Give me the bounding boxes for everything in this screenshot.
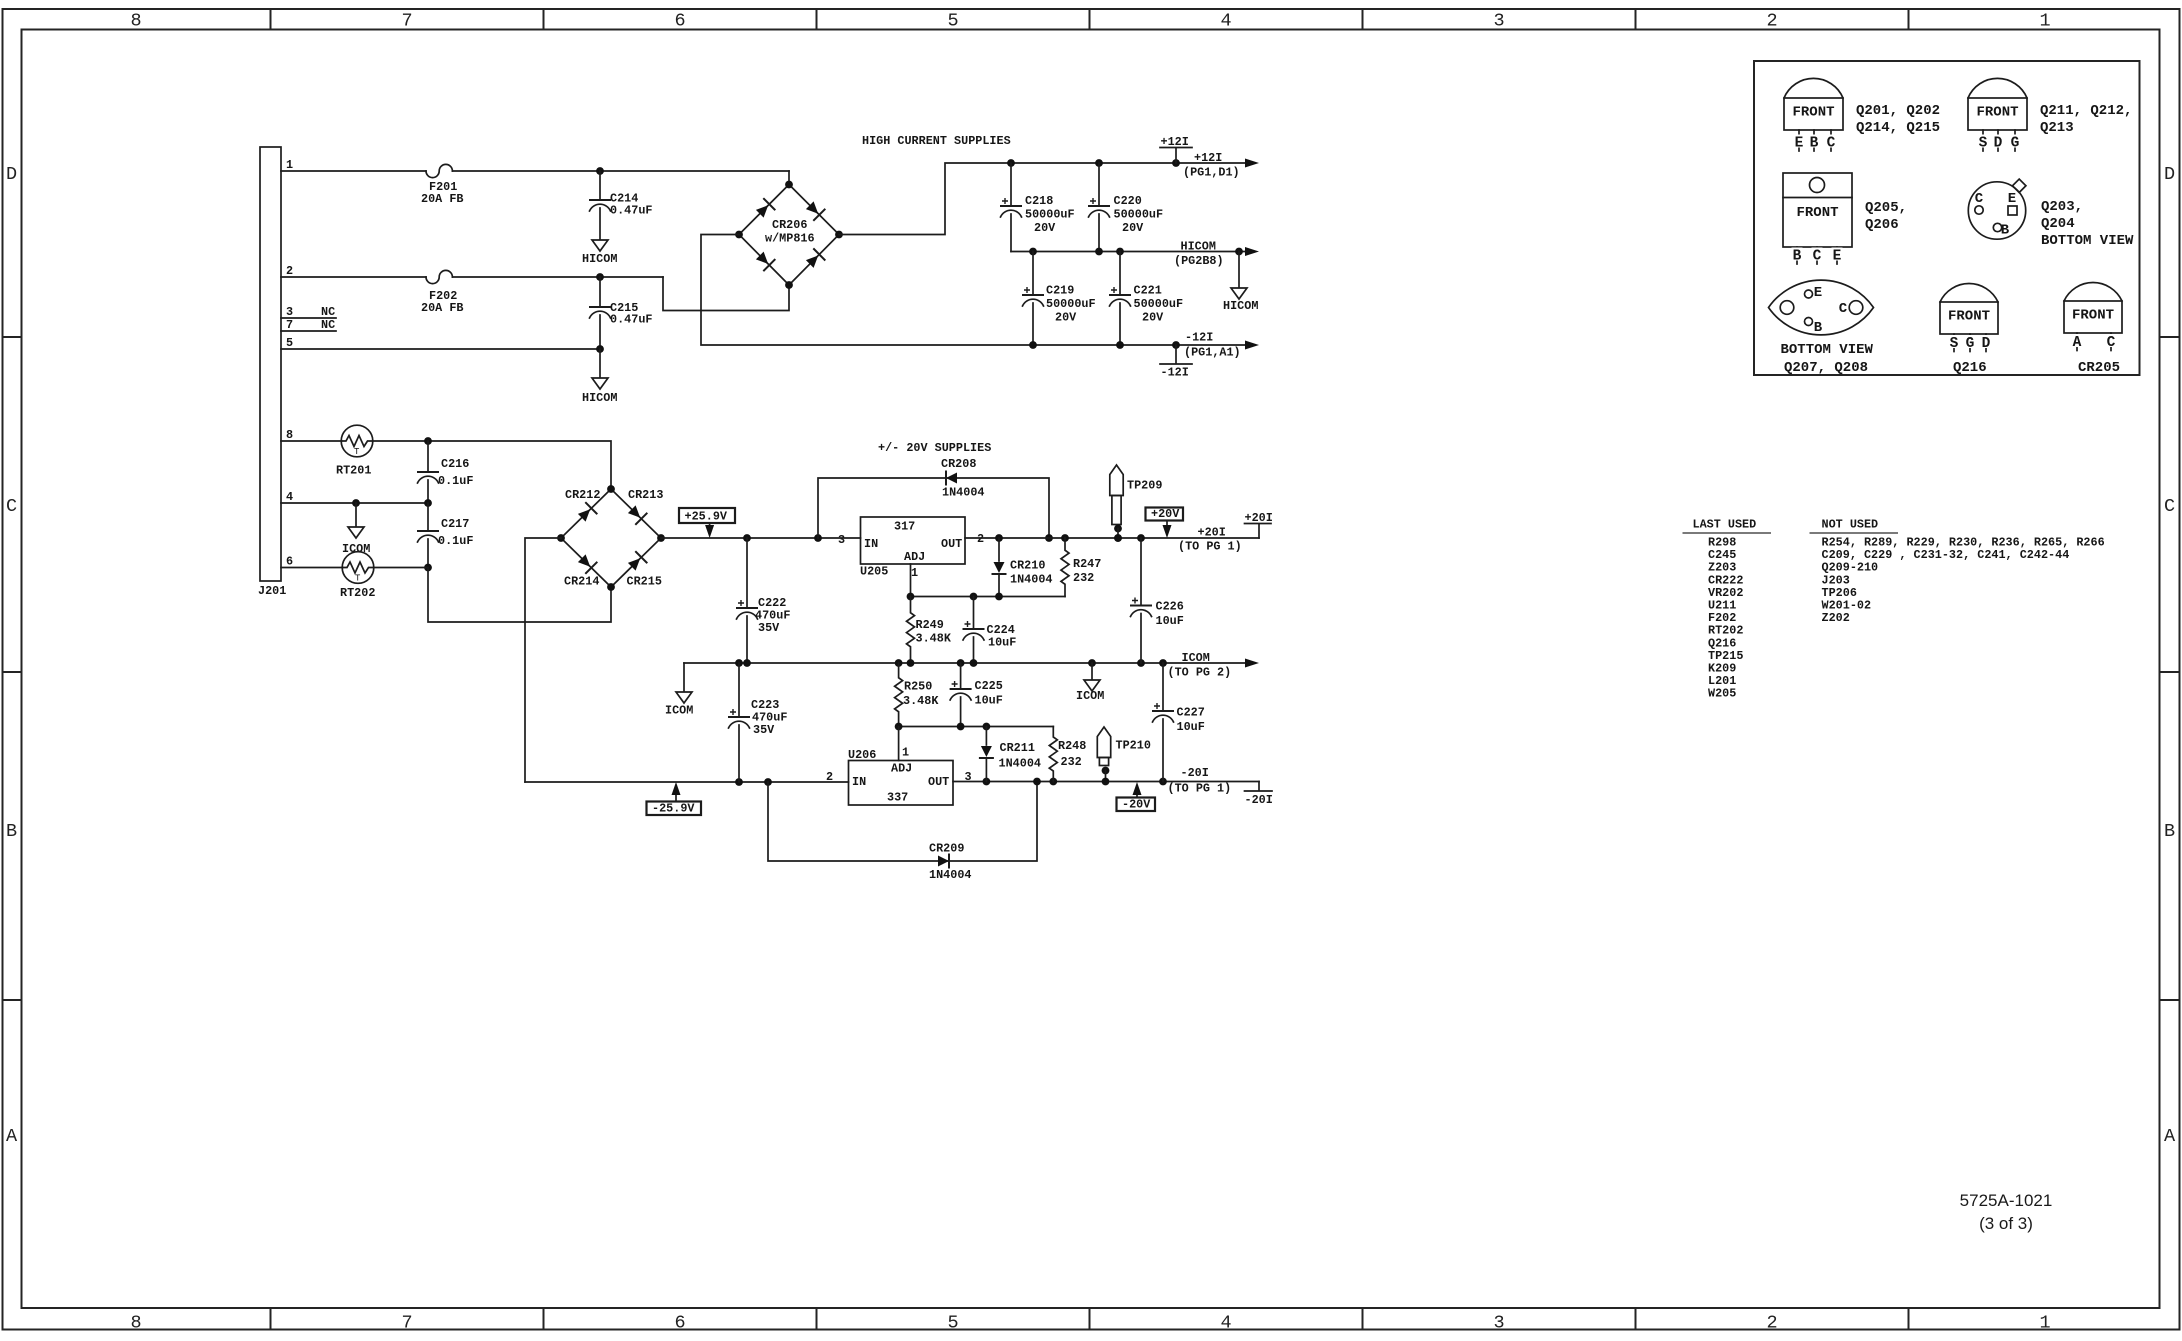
svg-text:ADJ: ADJ <box>904 550 925 564</box>
node ICOM right stub tap <box>1088 659 1096 667</box>
svg-text:CR205: CR205 <box>2078 360 2120 376</box>
svg-text:LAST USED: LAST USED <box>1693 518 1757 532</box>
test point TP209 <box>1110 465 1123 496</box>
svg-text:A: A <box>2164 1126 2176 1147</box>
svg-text:IN: IN <box>852 775 866 789</box>
node C217 top junction <box>424 499 432 507</box>
svg-text:CR210: CR210 <box>1010 559 1045 573</box>
svg-text:G: G <box>2011 136 2020 152</box>
node C224 top <box>970 593 978 601</box>
svg-text:(TO PG 1): (TO PG 1) <box>1168 782 1232 796</box>
wire RT202 to bridge bottom vertex <box>374 567 428 569</box>
wire CR208 bypass loop <box>818 478 1049 538</box>
capacitor C214 <box>599 171 601 199</box>
node C218 tap <box>1007 159 1015 167</box>
svg-text:0.1uF: 0.1uF <box>438 534 473 548</box>
svg-text:4: 4 <box>1220 11 1231 32</box>
svg-text:7: 7 <box>401 11 412 32</box>
svg-text:20V: 20V <box>1122 221 1144 235</box>
svg-text:A: A <box>2073 335 2082 351</box>
svg-text:C: C <box>1839 301 1848 317</box>
svg-text:S: S <box>1950 336 1959 352</box>
capacitor C224 <box>973 597 975 629</box>
svg-text:0.1uF: 0.1uF <box>438 474 473 488</box>
svg-text:ICOM: ICOM <box>665 704 693 718</box>
capacitor C223 <box>738 663 740 716</box>
svg-text:FRONT: FRONT <box>1976 105 2018 121</box>
arrow HICOM output <box>1245 247 1259 256</box>
svg-text:G: G <box>1966 336 1975 352</box>
svg-text:50000uF: 50000uF <box>1134 297 1184 311</box>
node C227 bottom <box>1159 778 1167 786</box>
node HICOM ground tap <box>1235 248 1243 256</box>
ground HICOM below C214 <box>592 240 608 251</box>
svg-text:-12I: -12I <box>1185 331 1213 345</box>
svg-text:NC: NC <box>321 318 335 332</box>
package Q211/Q212/Q213 front view <box>1968 98 2027 130</box>
svg-text:OUT: OUT <box>928 775 949 789</box>
svg-text:6: 6 <box>674 1313 685 1334</box>
node junction C214 tap <box>596 167 604 175</box>
svg-text:C220: C220 <box>1114 194 1142 208</box>
arrow +12I output <box>1245 159 1259 168</box>
bridge CR206 vertex nodes <box>785 181 793 189</box>
svg-text:NOT USED: NOT USED <box>1822 518 1879 532</box>
wire pin4 to C216/C217 junction <box>281 502 428 504</box>
node C221 top <box>1116 248 1124 256</box>
node RT202/C217 junction <box>424 564 432 572</box>
left border row letters D C B A <box>6 164 18 1147</box>
svg-text:B: B <box>1793 249 1802 265</box>
wire pin6 to RT202 <box>281 567 343 569</box>
svg-text:20A FB: 20A FB <box>421 192 463 206</box>
wire pin8 to RT201 <box>281 440 342 442</box>
svg-text:-20V: -20V <box>1122 798 1151 812</box>
svg-text:ICOM: ICOM <box>1076 689 1104 703</box>
svg-text:C: C <box>1827 136 1836 152</box>
node C220 bottom <box>1095 248 1103 256</box>
thermistor RT202 <box>342 552 374 584</box>
svg-text:D: D <box>2164 164 2175 185</box>
svg-text:R247: R247 <box>1073 557 1101 571</box>
diode CR215 arm bottom-right <box>628 558 640 570</box>
svg-text:3.48K: 3.48K <box>903 694 939 708</box>
voltage label +20V <box>1146 508 1184 521</box>
node -12I terminal tap <box>1172 341 1180 349</box>
svg-text:E: E <box>1833 249 1842 265</box>
svg-text:-20I: -20I <box>1181 766 1209 780</box>
svg-text:50000uF: 50000uF <box>1046 297 1096 311</box>
svg-text:Q206: Q206 <box>1865 217 1899 233</box>
svg-text:TP209: TP209 <box>1127 479 1162 493</box>
svg-text:Q216: Q216 <box>1953 360 1987 376</box>
svg-text:IN: IN <box>864 537 878 551</box>
fuse F202 <box>426 270 452 283</box>
svg-text:FRONT: FRONT <box>1948 309 1990 325</box>
node C227 top <box>1159 659 1167 667</box>
svg-text:FRONT: FRONT <box>1796 205 1838 221</box>
resistor R250 3.48K <box>895 663 903 727</box>
svg-text:D: D <box>1982 336 1991 352</box>
wire HICOM mid rail <box>1011 251 1246 253</box>
svg-text:CR208: CR208 <box>941 457 976 471</box>
diode CR211 1N4004 <box>985 727 987 746</box>
diode CR212 arm left-top <box>578 509 590 521</box>
svg-text:Z202: Z202 <box>1822 611 1850 625</box>
wire F201 to CR206 top vertex <box>452 170 789 172</box>
svg-text:3: 3 <box>1493 11 1504 32</box>
svg-text:232: 232 <box>1061 755 1082 769</box>
svg-text:4: 4 <box>1220 1313 1231 1334</box>
svg-text:C: C <box>1813 249 1822 265</box>
wire U206 OUT to -20 rail <box>953 781 1259 783</box>
node C219 bottom <box>1029 341 1037 349</box>
package Q207/Q208 TO-3 bottom view <box>1769 280 1874 335</box>
svg-text:ADJ: ADJ <box>891 762 912 776</box>
node CR210 bottom <box>995 593 1003 601</box>
svg-text:232: 232 <box>1073 571 1094 585</box>
wire bridge right vertex to U205 IN (+25.9V rail) <box>661 537 861 539</box>
svg-text:(TO PG 2): (TO PG 2) <box>1168 666 1232 680</box>
ground ICOM below pin4 <box>355 503 357 526</box>
wire U205 ADJ pin <box>910 564 912 597</box>
svg-text:Q207, Q208: Q207, Q208 <box>1784 360 1868 376</box>
svg-text:CR211: CR211 <box>1000 741 1035 755</box>
package Q201/Q202/Q214/Q215 TO-39 front view <box>1784 98 1843 130</box>
bridge rectifier CR206 diamond <box>739 185 839 286</box>
svg-text:2: 2 <box>977 532 984 546</box>
node junction C215 tap <box>596 273 604 281</box>
voltage label -25.9V <box>647 802 702 816</box>
svg-text:HIGH CURRENT SUPPLIES: HIGH CURRENT SUPPLIES <box>862 134 1011 148</box>
svg-text:HICOM: HICOM <box>1223 299 1258 313</box>
capacitor C221 <box>1119 252 1121 295</box>
node CR209 right <box>1033 778 1041 786</box>
node R250 bottom / U206 ADJ <box>895 723 903 731</box>
svg-text:R249: R249 <box>916 618 944 632</box>
thermistor RT201 <box>341 425 373 457</box>
node CR211 top <box>983 723 991 731</box>
svg-text:C: C <box>2107 335 2116 351</box>
svg-text:5: 5 <box>286 336 293 350</box>
terminal +20I riser <box>1258 524 1260 538</box>
svg-text:+20V: +20V <box>1151 507 1180 521</box>
ground HICOM output stub <box>1238 252 1240 288</box>
wire pin7 NC stub <box>281 330 336 332</box>
connector J201 pin number labels <box>286 158 293 569</box>
svg-text:OUT: OUT <box>941 537 962 551</box>
svg-text:A: A <box>6 1126 18 1147</box>
svg-text:1: 1 <box>286 158 293 172</box>
svg-text:CR209: CR209 <box>929 842 964 856</box>
diode CR213 arm top-right <box>628 505 640 517</box>
svg-text:D: D <box>6 164 17 185</box>
capacitor C226 <box>1140 538 1142 605</box>
node C220 tap <box>1095 159 1103 167</box>
svg-text:1N4004: 1N4004 <box>1010 573 1052 587</box>
svg-text:7: 7 <box>401 1313 412 1334</box>
node C225 bottom <box>957 723 965 731</box>
svg-text:C: C <box>2164 496 2175 517</box>
svg-text:337: 337 <box>887 791 908 805</box>
node C226 bottom <box>1137 659 1145 667</box>
svg-text:(PG1,A1): (PG1,A1) <box>1184 346 1241 360</box>
wire pin3 NC stub <box>281 317 336 319</box>
svg-text:B: B <box>2001 223 2010 239</box>
svg-text:10uF: 10uF <box>1177 720 1205 734</box>
node C225 top <box>957 659 965 667</box>
svg-text:CR213: CR213 <box>628 488 663 502</box>
node ICOM stub tap on pin4 <box>352 499 360 507</box>
terminal -20I drop <box>1258 782 1260 791</box>
svg-text:CR215: CR215 <box>627 575 662 589</box>
fuse F201 <box>426 164 452 177</box>
capacitor C222 <box>746 538 748 607</box>
node R247 top <box>1061 534 1069 542</box>
node C226 top <box>1137 534 1145 542</box>
node C222 bottom <box>743 659 751 667</box>
regulator U206 337 box <box>849 761 954 806</box>
svg-text:1N4004: 1N4004 <box>942 486 984 500</box>
node C224 bottom <box>970 659 978 667</box>
svg-text:2: 2 <box>1766 11 1777 32</box>
node U205 IN / CR208 tap <box>814 534 822 542</box>
resistor R248 232 <box>1049 727 1057 782</box>
svg-text:RT202: RT202 <box>340 586 375 600</box>
node junction pin5/C215 <box>596 345 604 353</box>
svg-text:-20I: -20I <box>1245 793 1273 807</box>
node CR208 right to OUT rail <box>1045 534 1053 542</box>
svg-text:8: 8 <box>130 11 141 32</box>
node C221 bottom <box>1116 341 1124 349</box>
svg-text:3: 3 <box>1493 1313 1504 1334</box>
svg-text:T: T <box>354 447 360 457</box>
diode CR206 arm left-bottom <box>756 252 768 264</box>
svg-text:W205: W205 <box>1708 687 1736 701</box>
svg-text:C218: C218 <box>1025 194 1053 208</box>
svg-text:20V: 20V <box>1034 221 1056 235</box>
svg-text:C217: C217 <box>441 517 469 531</box>
svg-text:(PG2B8): (PG2B8) <box>1174 254 1224 268</box>
svg-text:D: D <box>1994 136 2003 152</box>
top border column numbers 8-1 <box>130 11 2050 32</box>
svg-text:HICOM: HICOM <box>582 391 617 405</box>
svg-text:2: 2 <box>1766 1313 1777 1334</box>
node CR211 bottom <box>983 778 991 786</box>
svg-text:1N4004: 1N4004 <box>999 757 1041 771</box>
right border row letters D C B A <box>2164 164 2176 1147</box>
right border row dividers <box>2160 337 2180 1000</box>
capacitor C218 <box>1010 163 1012 205</box>
svg-text:E: E <box>2008 191 2016 207</box>
table column LAST USED entries <box>1708 536 1743 701</box>
bridge CR212-215 vertex nodes <box>607 485 615 493</box>
node TP209 tap <box>1114 534 1122 542</box>
svg-text:1: 1 <box>911 566 918 580</box>
svg-text:3.48K: 3.48K <box>916 632 952 646</box>
node +12I terminal tap <box>1172 159 1180 167</box>
node CR210 top <box>995 534 1003 542</box>
ground HICOM below pin5 <box>592 378 608 389</box>
svg-text:HICOM: HICOM <box>1181 240 1216 254</box>
wire CR206 right vertex to +12I rail <box>839 163 1246 235</box>
svg-text:+12I: +12I <box>1161 135 1189 149</box>
svg-text:S: S <box>1979 136 1988 152</box>
svg-text:C226: C226 <box>1156 600 1184 614</box>
diode CR206 arm bottom-right <box>806 256 818 268</box>
resistor R247 232 <box>1061 538 1069 597</box>
svg-text:(3 of 3): (3 of 3) <box>1979 1214 2033 1233</box>
node C222 tap <box>743 534 751 542</box>
wire pin2 to fuse F202 <box>281 276 426 278</box>
svg-text:10uF: 10uF <box>1156 614 1184 628</box>
diode CR210 1N4004 <box>998 538 1000 561</box>
node C219 top <box>1029 248 1037 256</box>
svg-text:CR212: CR212 <box>565 488 600 502</box>
svg-text:4: 4 <box>286 490 293 504</box>
resistor R249 3.48K <box>907 597 915 664</box>
node CR209 left tap <box>764 778 772 786</box>
wire U205 OUT to +20 rail <box>965 537 1259 539</box>
svg-text:T: T <box>355 574 361 584</box>
wire RT201 to bridge top vertex <box>373 441 611 489</box>
svg-text:C221: C221 <box>1134 284 1162 298</box>
wire U206 ADJ rail <box>899 726 1054 728</box>
svg-text:C225: C225 <box>975 679 1003 693</box>
svg-text:w/MP816: w/MP816 <box>765 232 815 246</box>
svg-text:NC: NC <box>321 305 335 319</box>
connector J201 body <box>260 147 281 581</box>
node ADJ junction <box>907 593 915 601</box>
wire pin5 to HICOM ground <box>281 348 600 350</box>
diode CR214 arm left-bottom <box>578 554 590 566</box>
bottom border column dividers <box>271 1308 1909 1330</box>
svg-text:B: B <box>1814 320 1823 336</box>
svg-text:C: C <box>1975 191 1984 207</box>
capacitor C227 <box>1162 663 1164 710</box>
svg-text:5725A-1021: 5725A-1021 <box>1960 1191 2053 1210</box>
wire pin1 to fuse F201 <box>281 170 426 172</box>
node R248 bottom <box>1049 778 1057 786</box>
wire ICOM rail <box>684 662 1246 664</box>
svg-text:+12I: +12I <box>1194 151 1222 165</box>
node R250 top <box>895 659 903 667</box>
svg-text:TP210: TP210 <box>1116 739 1151 753</box>
svg-text:-25.9V: -25.9V <box>652 802 695 816</box>
svg-text:(PG1,D1): (PG1,D1) <box>1183 166 1240 180</box>
svg-text:6: 6 <box>674 11 685 32</box>
svg-text:R250: R250 <box>904 680 932 694</box>
voltage label -20V <box>1117 798 1156 812</box>
node C216 tap <box>424 437 432 445</box>
svg-text:ICOM: ICOM <box>1182 651 1210 665</box>
svg-text:(TO PG 1): (TO PG 1) <box>1178 540 1242 554</box>
svg-text:+20I: +20I <box>1245 511 1273 525</box>
svg-text:1: 1 <box>2039 1313 2050 1334</box>
package CR205 front view <box>2064 301 2122 333</box>
svg-text:HICOM: HICOM <box>582 252 617 266</box>
svg-text:BOTTOM VIEW: BOTTOM VIEW <box>2041 233 2134 249</box>
svg-text:+/- 20V SUPPLIES: +/- 20V SUPPLIES <box>878 441 991 455</box>
svg-text:J201: J201 <box>258 584 286 598</box>
svg-text:8: 8 <box>286 428 293 442</box>
left border row dividers <box>3 337 22 1000</box>
svg-text:20A FB: 20A FB <box>421 301 463 315</box>
table column NOT USED entries <box>1822 536 2105 626</box>
svg-text:C227: C227 <box>1177 706 1205 720</box>
wire -25.9V rail to U206 IN <box>525 781 849 783</box>
svg-text:7: 7 <box>286 318 293 332</box>
svg-text:R248: R248 <box>1058 739 1086 753</box>
svg-text:Q203,: Q203, <box>2041 199 2083 215</box>
svg-text:C219: C219 <box>1046 284 1074 298</box>
svg-text:Q205,: Q205, <box>1865 200 1907 216</box>
svg-text:CR214: CR214 <box>564 575 599 589</box>
svg-text:2: 2 <box>286 264 293 278</box>
svg-text:5: 5 <box>947 1313 958 1334</box>
wire bridge left vertex to -25.9V rail <box>525 538 561 782</box>
svg-text:3: 3 <box>286 305 293 319</box>
svg-text:B: B <box>2164 821 2175 842</box>
package Q203/Q204 TO-39 bottom view <box>1968 182 2025 239</box>
svg-text:6: 6 <box>286 555 293 569</box>
svg-text:-12I: -12I <box>1161 366 1189 380</box>
svg-text:B: B <box>6 821 17 842</box>
svg-text:RT201: RT201 <box>336 464 371 478</box>
svg-text:E: E <box>1795 136 1804 152</box>
svg-text:50000uF: 50000uF <box>1114 208 1164 222</box>
diode CR209 1N4004 <box>938 856 949 867</box>
node C223 top <box>735 659 743 667</box>
capacitor C216 <box>427 441 429 471</box>
svg-text:C: C <box>6 496 17 517</box>
svg-text:Q201, Q202: Q201, Q202 <box>1856 103 1940 119</box>
capacitor C220 <box>1098 163 1100 205</box>
transistor package detail box <box>1754 61 2140 375</box>
arrow ICOM output <box>1245 659 1259 668</box>
svg-text:50000uF: 50000uF <box>1025 208 1075 222</box>
node C223 bottom <box>735 778 743 786</box>
wire U206 ADJ pin <box>898 727 900 761</box>
svg-text:FRONT: FRONT <box>1792 105 1834 121</box>
terminal -12I drop <box>1175 345 1177 364</box>
svg-text:FRONT: FRONT <box>2072 308 2114 324</box>
svg-text:C216: C216 <box>441 457 469 471</box>
bottom border column numbers 8-1 <box>130 1313 2050 1334</box>
voltage label +25.9V <box>679 508 735 523</box>
svg-text:Q214, Q215: Q214, Q215 <box>1856 120 1940 136</box>
diode CR208 1N4004 <box>946 473 957 484</box>
capacitor C215 <box>599 277 601 306</box>
arrow -12I output <box>1245 341 1259 350</box>
svg-text:10uF: 10uF <box>988 636 1016 650</box>
diode CR206 arm top-right <box>806 201 818 213</box>
wire CR209 bypass loop <box>768 782 1037 862</box>
svg-text:3: 3 <box>838 533 845 547</box>
svg-text:B: B <box>1810 136 1819 152</box>
ground ICOM left stub <box>683 663 685 691</box>
wire U205 ADJ rail <box>911 596 1066 598</box>
bridge CR212-CR215 diamond <box>561 489 661 587</box>
svg-text:5: 5 <box>947 11 958 32</box>
svg-text:1: 1 <box>2039 11 2050 32</box>
svg-text:20V: 20V <box>1142 311 1164 325</box>
svg-text:1: 1 <box>902 746 909 760</box>
svg-text:Q204: Q204 <box>2041 216 2075 232</box>
package Q205/Q206 TO-220 front view <box>1783 173 1852 247</box>
svg-text:317: 317 <box>894 520 915 534</box>
svg-text:U205: U205 <box>860 565 888 579</box>
